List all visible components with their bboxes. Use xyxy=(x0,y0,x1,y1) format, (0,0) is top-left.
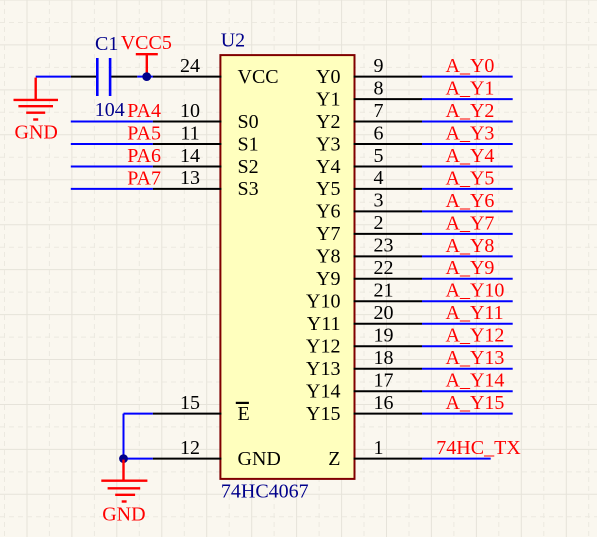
svg-text:18: 18 xyxy=(374,347,394,369)
svg-text:16: 16 xyxy=(374,392,394,414)
pin 6 (Y3) right xyxy=(316,122,422,155)
svg-text:Y11: Y11 xyxy=(307,313,341,335)
pin 5 (Y4) right xyxy=(316,145,422,178)
svg-text:GND: GND xyxy=(102,504,145,526)
pin 7 (Y2) right xyxy=(316,100,422,133)
pin 24 (VCC) left xyxy=(153,55,279,88)
svg-text:Y3: Y3 xyxy=(316,133,340,155)
pin 15 (E) left xyxy=(153,392,250,425)
svg-text:PA4: PA4 xyxy=(127,100,161,122)
IC U2 74HC4067 body xyxy=(220,55,354,479)
svg-text:A_Y8: A_Y8 xyxy=(446,235,495,257)
wire: A_Y9 net xyxy=(422,278,513,280)
wire: VCC net from GND corner to C1 xyxy=(36,76,71,78)
svg-text:A_Y2: A_Y2 xyxy=(446,100,495,122)
wire: PA6 net xyxy=(71,166,153,168)
svg-text:Y2: Y2 xyxy=(316,111,340,133)
pin 19 (Y12) right xyxy=(306,325,422,358)
wire: A_Y0 net xyxy=(422,76,513,78)
svg-text:C1: C1 xyxy=(95,33,118,55)
wire: C1 to pin 24 xyxy=(137,76,153,78)
wire: A_Y4 net xyxy=(422,166,513,168)
pin 4 (Y5) right xyxy=(316,167,422,200)
svg-text:A_Y7: A_Y7 xyxy=(446,212,495,234)
junction on ground net xyxy=(119,454,128,463)
pin 17 (Y14) right xyxy=(306,370,422,403)
wire: A_Y14 net xyxy=(422,390,513,392)
svg-text:9: 9 xyxy=(374,55,384,77)
pin 18 (Y13) right xyxy=(306,347,422,380)
wire: A_Y13 net xyxy=(422,368,513,370)
svg-text:A_Y5: A_Y5 xyxy=(446,167,495,189)
svg-text:14: 14 xyxy=(180,145,200,167)
ground GND (bottom power symbol) xyxy=(101,460,147,502)
wire: enable net to pin 15 xyxy=(124,413,153,415)
svg-text:23: 23 xyxy=(374,235,394,257)
svg-text:A_Y13: A_Y13 xyxy=(446,347,505,369)
svg-text:74HC4067: 74HC4067 xyxy=(221,481,309,503)
svg-text:VCC5: VCC5 xyxy=(121,32,172,54)
svg-text:PA7: PA7 xyxy=(127,167,161,189)
svg-text:A_Y1: A_Y1 xyxy=(446,78,495,100)
svg-text:3: 3 xyxy=(374,190,384,212)
svg-text:A_Y15: A_Y15 xyxy=(446,392,505,414)
wire: A_Y12 net xyxy=(422,345,513,347)
power VCC5 symbol xyxy=(136,54,158,76)
svg-text:24: 24 xyxy=(180,55,200,77)
svg-text:Y12: Y12 xyxy=(306,336,340,358)
wire: PA5 net xyxy=(71,143,153,145)
wire: A_Y3 net xyxy=(422,143,513,145)
pin 21 (Y10) right xyxy=(306,280,422,313)
pin 3 (Y6) right xyxy=(316,190,422,223)
pin 1 (Z) right xyxy=(328,437,422,470)
svg-text:10: 10 xyxy=(180,100,200,122)
svg-text:13: 13 xyxy=(180,167,200,189)
svg-text:Y1: Y1 xyxy=(316,88,340,110)
pin 12 (GND) left xyxy=(153,437,281,470)
wire: A_Y11 net xyxy=(422,323,513,325)
wire: A_Y7 net xyxy=(422,233,513,235)
svg-text:22: 22 xyxy=(374,257,394,279)
svg-text:GND: GND xyxy=(238,448,281,470)
svg-text:5: 5 xyxy=(374,145,384,167)
ground GND (top-left power symbol) xyxy=(14,78,59,120)
svg-text:Y0: Y0 xyxy=(316,66,340,88)
svg-text:1: 1 xyxy=(374,437,384,459)
svg-text:GND: GND xyxy=(15,122,58,144)
svg-text:15: 15 xyxy=(180,392,200,414)
svg-text:17: 17 xyxy=(374,370,394,392)
wire: enable net vertical xyxy=(123,414,125,459)
wire: PA4 net xyxy=(71,121,153,123)
svg-text:VCC: VCC xyxy=(238,66,279,88)
svg-text:A_Y4: A_Y4 xyxy=(446,145,495,167)
wire: 74HC_TX net xyxy=(422,458,491,460)
wire: A_Y15 net xyxy=(422,413,513,415)
svg-text:U2: U2 xyxy=(221,30,245,52)
svg-text:Y14: Y14 xyxy=(306,381,340,403)
svg-text:7: 7 xyxy=(374,100,384,122)
pin 23 (Y8) right xyxy=(316,235,422,268)
svg-text:S1: S1 xyxy=(238,133,259,155)
svg-text:S0: S0 xyxy=(238,111,259,133)
svg-text:21: 21 xyxy=(374,280,394,302)
svg-text:12: 12 xyxy=(180,437,200,459)
svg-text:Y13: Y13 xyxy=(306,358,340,380)
svg-text:A_Y10: A_Y10 xyxy=(446,280,505,302)
svg-text:8: 8 xyxy=(374,77,384,99)
svg-text:Z: Z xyxy=(328,448,340,470)
pin 20 (Y11) right xyxy=(307,302,422,335)
pin 11 (S1) left xyxy=(153,122,259,155)
svg-text:A_Y6: A_Y6 xyxy=(446,190,495,212)
svg-text:104: 104 xyxy=(95,99,125,121)
svg-text:Y9: Y9 xyxy=(316,268,340,290)
capacitor C1 xyxy=(71,58,138,96)
svg-text:Y10: Y10 xyxy=(306,291,340,313)
junction on VCC net xyxy=(142,72,151,81)
svg-text:E: E xyxy=(238,403,250,425)
svg-text:A_Y12: A_Y12 xyxy=(446,325,505,347)
pin 16 (Y15) right xyxy=(306,392,422,425)
svg-text:Y5: Y5 xyxy=(316,178,340,200)
pin 2 (Y7) right xyxy=(316,212,422,245)
pin 13 (S3) left xyxy=(153,167,259,200)
svg-text:Y4: Y4 xyxy=(316,156,340,178)
wire: A_Y5 net xyxy=(422,188,513,190)
svg-text:Y8: Y8 xyxy=(316,246,340,268)
svg-text:Y15: Y15 xyxy=(306,403,340,425)
pin 8 (Y1) right xyxy=(316,77,422,110)
svg-text:A_Y9: A_Y9 xyxy=(446,257,495,279)
wire: A_Y6 net xyxy=(422,210,513,212)
pin 22 (Y9) right xyxy=(316,257,422,290)
svg-text:A_Y14: A_Y14 xyxy=(446,370,505,392)
wire: A_Y2 net xyxy=(422,121,513,123)
svg-text:S2: S2 xyxy=(238,156,259,178)
svg-text:Y6: Y6 xyxy=(316,201,340,223)
svg-text:A_Y3: A_Y3 xyxy=(446,122,495,144)
svg-text:A_Y11: A_Y11 xyxy=(446,302,504,324)
pin 10 (S0) left xyxy=(153,100,259,133)
svg-text:2: 2 xyxy=(374,212,384,234)
pin 14 (S2) left xyxy=(153,145,259,178)
wire: A_Y8 net xyxy=(422,255,513,257)
wire: A_Y1 net xyxy=(422,98,513,100)
svg-text:PA6: PA6 xyxy=(127,145,161,167)
svg-text:4: 4 xyxy=(374,167,384,189)
pin 9 (Y0) right xyxy=(316,55,422,88)
wire: A_Y10 net xyxy=(422,300,513,302)
svg-text:20: 20 xyxy=(374,302,394,324)
wire: ground net to pin 12 xyxy=(124,458,153,460)
svg-text:PA5: PA5 xyxy=(127,122,161,144)
svg-text:11: 11 xyxy=(180,122,199,144)
wire: PA7 net xyxy=(71,188,153,190)
svg-text:6: 6 xyxy=(374,122,384,144)
svg-text:S3: S3 xyxy=(238,178,259,200)
svg-text:19: 19 xyxy=(374,325,394,347)
svg-text:Y7: Y7 xyxy=(316,223,340,245)
svg-text:74HC_TX: 74HC_TX xyxy=(436,437,521,459)
svg-text:A_Y0: A_Y0 xyxy=(446,55,495,77)
